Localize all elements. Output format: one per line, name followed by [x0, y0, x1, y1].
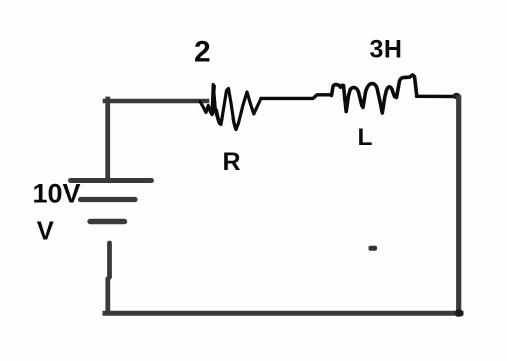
- inductor L: [332, 75, 417, 113]
- svg-text:3H: 3H: [370, 35, 403, 63]
- svg-text:R: R: [223, 148, 241, 176]
- wire (resistor to inductor): [261, 95, 331, 99]
- svg-text:V: V: [37, 218, 54, 246]
- polarity mark (small dash): [369, 246, 378, 251]
- svg-text:2: 2: [194, 36, 211, 69]
- resistor R: [200, 85, 261, 130]
- battery V1 plate 2 (middle): [81, 197, 136, 202]
- wire (bottom horizontal): [105, 311, 461, 316]
- wire (inductor to top-right corner): [417, 95, 459, 99]
- svg-text:L: L: [358, 124, 373, 151]
- resistor R (overlapping second pen stroke): [213, 86, 238, 129]
- battery V1 plate 3 (bottom, shortest, - terminal): [90, 219, 125, 224]
- battery V1 plate 1 (top, longest, + terminal): [71, 178, 152, 183]
- wire (top horizontal, battery to resistor): [105, 99, 207, 104]
- wire (right vertical): [456, 98, 461, 314]
- svg-text:10V: 10V: [33, 179, 81, 209]
- wire (top-left vertical, down to battery + plate): [105, 99, 110, 180]
- node (top-right junction dot): [453, 93, 461, 99]
- node (bottom-right junction dot): [455, 309, 464, 316]
- wire (lower-left vertical, battery - to bottom wire): [108, 243, 110, 313]
